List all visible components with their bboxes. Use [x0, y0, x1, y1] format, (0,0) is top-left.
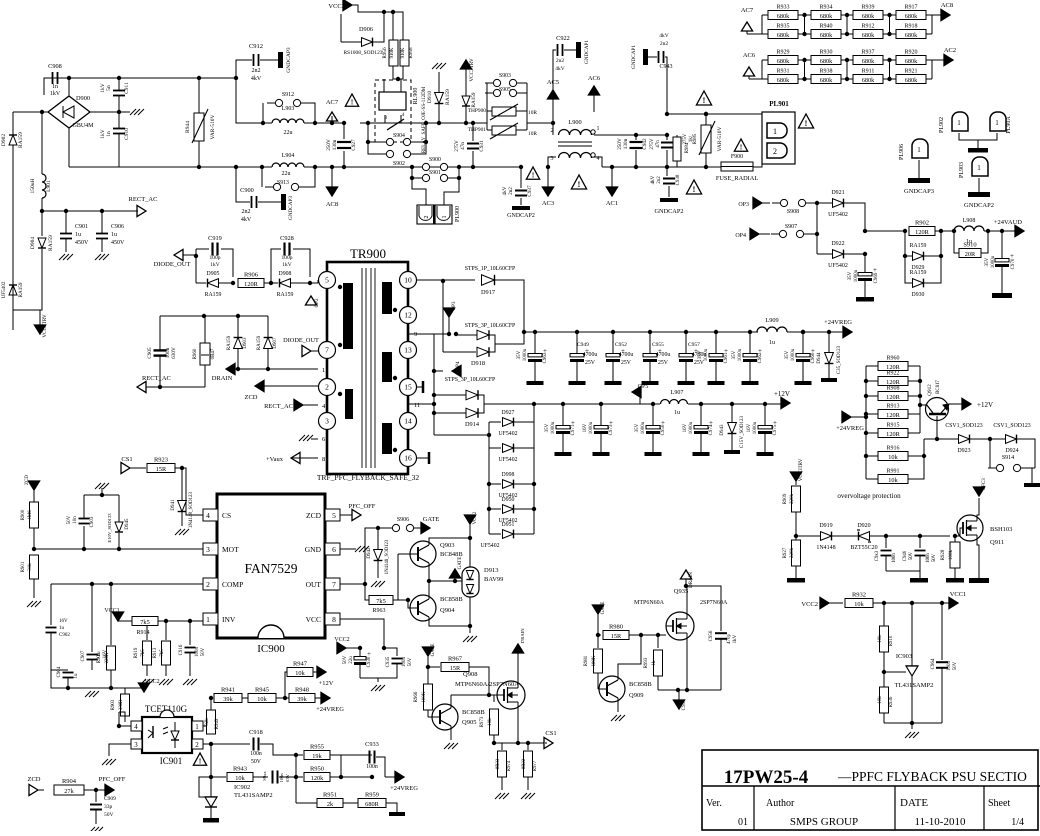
resistor R917 680k [890, 14, 896, 16]
junction [158, 385, 162, 389]
wire [393, 599, 408, 601]
svg-text:2: 2 [424, 216, 430, 219]
junction [684, 584, 688, 588]
wire [731, 404, 733, 422]
svg-text:VCC3TRV: VCC3TRV [799, 458, 804, 481]
svg-text:1: 1 [322, 367, 325, 374]
junction [410, 165, 414, 169]
wire [443, 351, 476, 353]
bridge rectifier D900 GBU4M [48, 96, 90, 128]
svg-text:VCC3TRV: VCC3TRV [42, 314, 48, 337]
svg-text:GNDCAP1: GNDCAP1 [584, 40, 590, 64]
svg-text:IC903: IC903 [896, 653, 912, 660]
svg-text:11-10-2010: 11-10-2010 [915, 816, 966, 828]
svg-text:1kV: 1kV [210, 262, 220, 268]
svg-text:220k: 220k [790, 494, 795, 505]
svg-text:BC858B: BC858B [440, 596, 463, 603]
svg-text:RA159: RA159 [910, 270, 927, 276]
wire to AC7 [315, 122, 344, 124]
svg-text:01: 01 [738, 817, 748, 828]
junction [684, 330, 688, 334]
svg-text:UF5402: UF5402 [480, 543, 499, 549]
svg-text:S908: S908 [787, 209, 799, 215]
wire tr right rail [433, 334, 435, 435]
wire [652, 404, 654, 425]
junction [209, 775, 213, 779]
svg-text:1k: 1k [652, 660, 657, 666]
connector PL906 [912, 139, 928, 158]
wire [51, 633, 68, 688]
wire [253, 776, 268, 778]
wire [165, 665, 167, 676]
wire [484, 403, 534, 405]
wire cs rail [494, 742, 545, 744]
svg-text:S901: S901 [429, 170, 441, 176]
svg-text:PL900: PL900 [455, 206, 461, 222]
gnd bar [742, 381, 759, 385]
gndcap bar [643, 49, 648, 65]
resistor R937 680k [847, 59, 853, 61]
wire [883, 713, 885, 723]
svg-text:C973: C973 [609, 424, 614, 435]
svg-text:R948: R948 [295, 687, 309, 694]
junction [453, 579, 457, 583]
junction [40, 209, 44, 213]
svg-text:680k: 680k [862, 77, 875, 84]
junction [32, 547, 36, 551]
capacitor C908 [52, 72, 54, 84]
svg-text:32k: 32k [205, 718, 210, 726]
svg-text:CS1: CS1 [121, 456, 132, 463]
gndcap bar [992, 293, 1012, 298]
svg-text:L908: L908 [963, 218, 976, 224]
svg-text:680k: 680k [862, 58, 875, 65]
wire q905 emit [450, 726, 452, 740]
net DIODE_OUT [174, 249, 183, 260]
svg-text:RECT_AC: RECT_AC [129, 196, 158, 203]
junction [100, 493, 104, 497]
wire [514, 447, 534, 449]
svg-text:39k: 39k [223, 696, 233, 703]
gndcap bar [576, 42, 581, 58]
net OP4 [452, 365, 461, 376]
resistor R940 680k [805, 33, 811, 35]
junction [427, 579, 431, 583]
ground [175, 529, 181, 535]
svg-text:S912: S912 [282, 92, 294, 98]
svg-text:2SP7N60A: 2SP7N60A [700, 600, 728, 606]
svg-text:IC900: IC900 [257, 643, 285, 655]
wire riser to L903 [236, 78, 263, 123]
svg-text:15R: 15R [450, 665, 461, 672]
svg-text:C971: C971 [571, 424, 576, 435]
svg-text:680k: 680k [905, 13, 918, 20]
svg-text:220K: 220K [105, 652, 110, 663]
svg-text:100n: 100n [279, 773, 284, 783]
wire [954, 536, 956, 542]
svg-text:35V: 35V [848, 271, 853, 280]
svg-text:R951: R951 [323, 792, 337, 799]
svg-text:L901: L901 [46, 180, 52, 192]
svg-text:R945: R945 [255, 687, 269, 694]
wire [414, 527, 421, 529]
pin 8 VCC [325, 613, 340, 625]
svg-text:R936: R936 [889, 696, 894, 707]
wire [303, 457, 318, 459]
wire [802, 361, 804, 381]
wire [258, 201, 281, 203]
junction [370, 775, 374, 779]
svg-text:DRAIN: DRAIN [689, 572, 694, 588]
junction [887, 32, 891, 36]
svg-text:R973: R973 [480, 716, 485, 727]
wire bus1 [534, 331, 756, 333]
wire [828, 364, 830, 378]
resistor R913 120R [866, 413, 878, 415]
svg-text:910K: 910K [390, 47, 395, 58]
wire [293, 249, 310, 277]
junction [66, 686, 70, 690]
svg-text:L909: L909 [765, 317, 778, 324]
svg-text:R928: R928 [941, 549, 946, 560]
svg-text:7: 7 [332, 580, 336, 589]
svg-text:680k: 680k [777, 77, 790, 84]
svg-text:RA159: RA159 [277, 292, 294, 298]
svg-text:R932: R932 [852, 592, 866, 599]
svg-text:overvoltage protection: overvoltage protection [837, 492, 901, 500]
wire pin1 [203, 726, 211, 734]
svg-text:680k: 680k [905, 58, 918, 65]
wire [211, 743, 250, 745]
wire lower mains cont [315, 166, 360, 168]
junction [704, 112, 708, 116]
wire [264, 385, 318, 387]
svg-text:C931: C931 [479, 140, 485, 152]
svg-text:IC902: IC902 [234, 784, 250, 791]
wire [384, 648, 397, 656]
transformer L900 common-mode choke [559, 130, 592, 136]
junction [117, 724, 121, 728]
wire comp rail [51, 583, 203, 585]
junction [546, 165, 550, 169]
svg-text:C902: C902 [59, 633, 70, 638]
junction [863, 252, 867, 256]
junction [410, 176, 414, 180]
diode D913 BAV99 [462, 567, 479, 597]
diode D911 RA159 [465, 74, 467, 96]
resistor R945 10k [248, 694, 276, 703]
svg-text:1000u: 1000u [753, 421, 758, 434]
wire [514, 421, 534, 423]
junction [391, 10, 395, 14]
wire [935, 230, 945, 232]
junction [656, 633, 660, 637]
junction [611, 330, 615, 334]
svg-text:Author: Author [766, 798, 795, 809]
svg-text:S913: S913 [277, 180, 289, 186]
svg-text:100n: 100n [402, 657, 407, 668]
svg-text:3: 3 [206, 545, 210, 554]
svg-text:14: 14 [404, 417, 412, 426]
wire [806, 202, 817, 204]
mosfet Q908 MTP6N60A/2SP7N60A [497, 681, 525, 709]
svg-text:680k: 680k [820, 77, 833, 84]
junction [454, 332, 458, 336]
wire [68, 687, 111, 689]
junction [471, 165, 475, 169]
net PFC_OFF bl [105, 784, 114, 795]
junction [910, 721, 914, 725]
wire [489, 421, 501, 423]
junction [918, 403, 922, 407]
junction [1000, 229, 1004, 233]
svg-text:1: 1 [917, 146, 921, 154]
wire [118, 533, 120, 549]
svg-text:39k: 39k [297, 696, 307, 703]
wire [41, 211, 43, 236]
net AC2 [944, 54, 953, 65]
svg-text:R960: R960 [886, 356, 899, 362]
wire [181, 512, 183, 526]
junction [437, 121, 441, 125]
svg-text:C946: C946 [903, 550, 908, 561]
resistor R930 680k [805, 59, 811, 61]
wire [750, 331, 758, 333]
svg-text:50V: 50V [251, 759, 262, 765]
svg-text:680k: 680k [862, 13, 875, 20]
wire [368, 142, 383, 154]
gnd bar [569, 381, 586, 385]
svg-text:31k: 31k [28, 563, 33, 571]
svg-text:15R: 15R [611, 633, 622, 640]
svg-text:TL431SAMP2: TL431SAMP2 [895, 682, 934, 689]
gnd bar [203, 818, 219, 823]
resistor R914 7k5 [132, 617, 158, 626]
wire [970, 438, 1005, 440]
svg-text:4: 4 [206, 511, 210, 520]
svg-text:50V: 50V [343, 655, 348, 664]
relay RL900 [375, 80, 411, 142]
varistor R9B4 VAR-510V [705, 114, 707, 125]
wire [924, 231, 941, 256]
wire [700, 404, 702, 425]
svg-text:STPS_1P_10L60CFP: STPS_1P_10L60CFP [465, 266, 516, 272]
warning triangle [734, 139, 747, 151]
svg-text:4kV: 4kV [251, 76, 262, 82]
wire [427, 667, 429, 684]
junction [953, 534, 957, 538]
junction [903, 254, 907, 258]
svg-text:GNDCAP3: GNDCAP3 [288, 196, 294, 220]
wire c919 loop [195, 256, 197, 283]
svg-text:RA159: RA159 [205, 292, 222, 298]
junction [424, 121, 428, 125]
junction [234, 165, 238, 169]
svg-text:100n: 100n [366, 764, 378, 770]
svg-text:R922: R922 [886, 371, 899, 377]
svg-text:1N4148_SOD123: 1N4148_SOD123 [385, 539, 390, 574]
wire [636, 134, 667, 136]
svg-text:275V: 275V [454, 140, 460, 152]
resistor R921 680k [890, 78, 896, 80]
wire q905 coll [450, 695, 452, 708]
wire [210, 807, 212, 818]
resistor R920 680k [890, 59, 896, 61]
wire [330, 776, 372, 778]
wire [264, 282, 271, 284]
svg-text:R974: R974 [507, 760, 512, 771]
wire lower mains to right [360, 166, 520, 168]
wire [795, 512, 797, 540]
svg-text:10k: 10k [257, 696, 267, 703]
svg-text:R927: R927 [783, 547, 788, 558]
wire [279, 776, 296, 778]
svg-text:R917: R917 [904, 5, 917, 11]
svg-text:R947: R947 [293, 661, 308, 668]
svg-text:10k: 10k [878, 696, 883, 704]
svg-text:D905: D905 [207, 271, 220, 277]
capacitor C912b 100n 63V [272, 771, 274, 784]
wire [83, 495, 85, 518]
warning triangle [526, 167, 539, 179]
svg-text:7k5: 7k5 [140, 619, 149, 626]
wire [411, 123, 426, 142]
svg-text:16V: 16V [747, 423, 752, 432]
svg-text:10k: 10k [888, 454, 898, 461]
wire [706, 166, 721, 168]
thermistor THP901 10R [492, 126, 516, 135]
wire [924, 256, 941, 283]
wire [954, 231, 959, 253]
resistor R929 680k [762, 59, 768, 61]
wire [13, 309, 40, 311]
wire [832, 535, 858, 537]
transistor Q909 BC858B [599, 676, 625, 702]
svg-text:BC858B: BC858B [462, 709, 485, 716]
junction [197, 165, 201, 169]
wire [183, 254, 196, 256]
wire [764, 433, 766, 452]
junction [939, 229, 943, 233]
svg-text:+24VREG: +24VREG [390, 785, 418, 792]
wire [267, 349, 269, 369]
svg-text:OP4: OP4 [456, 361, 461, 370]
junction [313, 165, 317, 169]
svg-text:RA159: RA159 [18, 282, 24, 297]
wire aux node [865, 230, 905, 232]
svg-text:10k: 10k [854, 601, 864, 608]
junction [109, 582, 113, 586]
svg-text:C916: C916 [179, 644, 184, 655]
wire [261, 167, 263, 187]
warning triangle [696, 91, 711, 105]
svg-text:CS1: CS1 [682, 701, 687, 710]
svg-text:27k: 27k [64, 788, 74, 795]
capacitor C943 GNDCAP1 [658, 51, 660, 63]
wire C901 gnd [65, 239, 67, 252]
junction [516, 741, 520, 745]
wire [984, 230, 988, 232]
wire [936, 416, 938, 439]
svg-text:—PPFC FLYBACK PSU SECTIO: —PPFC FLYBACK PSU SECTIO [837, 769, 1027, 784]
svg-text:I7RAIN: I7RAIN [520, 628, 525, 644]
capacitor C905 [154, 349, 167, 351]
resistor R906 120R [238, 279, 264, 288]
ground [27, 601, 33, 607]
net CS1 q935 [673, 700, 684, 709]
resistor R9B4 [673, 137, 681, 161]
svg-text:680k: 680k [905, 77, 918, 84]
svg-text:CS1: CS1 [545, 730, 556, 737]
wire q911 gate [955, 528, 963, 536]
junction [730, 402, 734, 406]
wire [84, 494, 119, 496]
svg-text:50V: 50V [408, 657, 413, 666]
wire [747, 33, 762, 35]
svg-text:C928: C928 [280, 235, 294, 242]
wire snub [686, 586, 721, 631]
svg-text:35V: 35V [732, 350, 737, 359]
resistor R904 27k [54, 785, 84, 795]
wire snubber rail [160, 315, 268, 317]
svg-text:1000u: 1000u [689, 421, 694, 434]
junction [209, 742, 213, 746]
net AC7 [326, 112, 337, 121]
svg-text:C949: C949 [577, 342, 589, 348]
svg-text:R909: R909 [783, 493, 788, 504]
gnd bar [527, 381, 544, 385]
svg-text:THP900: THP900 [468, 108, 487, 114]
svg-text:RA159: RA159 [471, 92, 477, 107]
transistor Q905 BC858B [432, 704, 458, 730]
wire ref [884, 671, 906, 673]
svg-text:910K: 910K [401, 47, 406, 58]
wire [402, 66, 404, 79]
pin 1 INV [203, 613, 218, 625]
svg-text:33p: 33p [104, 804, 113, 810]
wire upper mains [51, 77, 236, 79]
connector PL903 [972, 157, 988, 176]
ground [444, 743, 450, 749]
wire relay coil [383, 79, 385, 92]
pin 7 OUT [325, 578, 340, 590]
svg-text:GBU4M: GBU4M [72, 123, 94, 129]
svg-text:2n2: 2n2 [252, 68, 261, 74]
svg-text:S905: S905 [499, 87, 511, 93]
svg-text:250V: 250V [326, 139, 332, 151]
wire [666, 135, 668, 140]
junction [236, 367, 240, 371]
net OP3 [753, 197, 762, 208]
svg-text:680k: 680k [820, 58, 833, 65]
resistor R956 910K [389, 40, 398, 66]
pin 13 [400, 342, 417, 359]
svg-text:680k: 680k [777, 58, 790, 65]
wire [514, 508, 534, 510]
wire [886, 556, 920, 571]
svg-text:MTP6N60A/2SP7N60A: MTP6N60A/2SP7N60A [455, 681, 519, 688]
svg-text:1: 1 [195, 723, 199, 731]
wire [237, 349, 239, 369]
svg-text:R940: R940 [819, 24, 832, 30]
relay switch [384, 115, 386, 123]
wire [787, 331, 844, 333]
wire [990, 439, 996, 468]
wire [341, 754, 372, 756]
svg-text:5n: 5n [106, 85, 112, 91]
wire q909 emit [617, 698, 619, 712]
svg-text:!: ! [740, 143, 743, 152]
